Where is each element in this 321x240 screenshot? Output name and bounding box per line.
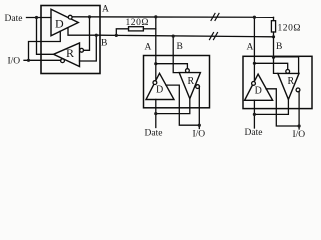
- svg-text:A: A: [145, 43, 152, 53]
- wire: slave1 R output down to Date line: [156, 99, 190, 114]
- svg-text:D: D: [255, 85, 262, 96]
- driver D (slave2, pointing up): [245, 74, 273, 100]
- node: B-wire / R input junction: [95, 34, 98, 37]
- driver D bubble (slave2): [252, 82, 256, 86]
- node: A-wire / R input junction: [88, 15, 91, 18]
- receiver R enable bubble (slave2): [296, 88, 300, 92]
- node: Date junction: [35, 16, 38, 19]
- node: R2 / B-bus junction: [272, 35, 275, 38]
- wire: Date branch down to R output: [37, 18, 54, 55]
- slave 1 transceiver box U2: [144, 56, 210, 108]
- wire: slave2 R output down to Date line: [254, 99, 288, 114]
- node: slave2 internal B junction: [272, 56, 275, 59]
- wire: R input bubble stub up to A: [84, 17, 90, 50]
- svg-text:120Ω: 120Ω: [278, 24, 302, 34]
- svg-text:R: R: [288, 76, 295, 87]
- wire: B bus from master box to right termination: [100, 35, 274, 37]
- receiver R input bubble: [80, 48, 84, 52]
- wire: slave2 A branch to R input bubble: [254, 63, 287, 69]
- svg-text:A: A: [102, 5, 109, 15]
- node: slave2 Date junction: [253, 113, 256, 116]
- node: A bus / slave1 tap: [154, 15, 157, 18]
- svg-text:I/O: I/O: [8, 57, 21, 67]
- receiver R (master): [54, 43, 80, 67]
- wire: D bottom tap to B line: [68, 28, 100, 36]
- svg-text:B: B: [276, 42, 282, 52]
- node: slave2 internal A junction: [253, 62, 256, 65]
- svg-text:D: D: [55, 17, 64, 31]
- svg-text:I/O: I/O: [293, 130, 306, 140]
- svg-text:Date: Date: [145, 129, 163, 139]
- wire: A line from D bubble across bus to right termination: [72, 16, 273, 19]
- node: I/O junction: [27, 59, 30, 62]
- svg-text:B: B: [101, 39, 107, 49]
- driver D (master): [51, 9, 78, 36]
- wire: slave1 B tap from bus to R base: [173, 36, 179, 73]
- svg-text:D: D: [156, 85, 163, 96]
- wire: slave1 A branch to R input bubble: [156, 64, 188, 69]
- master transceiver box U1: [41, 6, 100, 74]
- node: A bus / slave2 tap: [253, 16, 256, 19]
- wire: slave2 A tap from bus into box to D bubble: [253, 17, 255, 82]
- wire: I/O to R enable bubble: [24, 59, 61, 61]
- svg-text:A: A: [247, 43, 254, 53]
- wire: R1 left lead down to B: [116, 29, 128, 36]
- svg-text:R: R: [188, 76, 195, 87]
- wire: Date input to D: [27, 17, 52, 19]
- svg-text:Date: Date: [245, 128, 263, 138]
- wire: slave2 B over-top branch to R base right corner: [274, 57, 299, 74]
- wire: slave1 A tap from bus into box to D bubble: [155, 17, 157, 81]
- node: slave1 I/O junction: [198, 124, 201, 127]
- receiver R input bubble (slave1): [186, 69, 190, 73]
- receiver R input bubble (slave2): [286, 70, 290, 74]
- node: slave1 internal A junction: [154, 62, 157, 65]
- node: slave2 I/O junction: [298, 124, 301, 127]
- wire: I/O branch up to D enable: [29, 31, 61, 60]
- wire: slave2 D enable to I/O line: [266, 89, 299, 126]
- svg-text:Date: Date: [5, 14, 23, 24]
- wire: slave1 D enable to I/O line: [166, 85, 199, 125]
- wire: slave2 D input down to Date: [253, 100, 255, 128]
- svg-text:B: B: [177, 42, 183, 52]
- bus break marks on A: [211, 13, 219, 20]
- receiver R (slave2, pointing down): [278, 73, 299, 99]
- bus break marks on B: [210, 33, 218, 40]
- wire: R1 right lead to A tap: [143, 28, 155, 30]
- resistor R2 120 ohm (right termination, vertical): [273, 17, 275, 20]
- svg-text:120Ω: 120Ω: [126, 18, 150, 28]
- driver D bubble (inverting output): [68, 15, 72, 19]
- wire: slave2 R enable stub down to I/O: [298, 91, 300, 129]
- svg-text:I/O: I/O: [193, 130, 206, 140]
- receiver R enable bubble: [61, 59, 65, 63]
- slave 2 transceiver box U3: [243, 56, 312, 108]
- node: B bus / slave1 tap: [172, 35, 175, 38]
- resistor R1 120 ohm (left termination): [129, 27, 144, 31]
- receiver R (slave1, pointing down): [179, 73, 200, 99]
- driver D (slave1, pointing up): [146, 73, 174, 99]
- wire: slave1 R enable stub down to I/O: [198, 87, 200, 129]
- wire: R lower input up to B: [80, 35, 97, 61]
- node: R1/B junction: [115, 34, 118, 37]
- wire: slave2 B tap from bus to R base: [274, 37, 278, 74]
- receiver R enable bubble (slave1): [196, 85, 200, 89]
- driver D bubble (slave1): [153, 81, 157, 85]
- node: slave1 Date junction: [154, 112, 157, 115]
- svg-text:R: R: [66, 46, 74, 60]
- wire: slave1 D input down to Date: [155, 100, 157, 128]
